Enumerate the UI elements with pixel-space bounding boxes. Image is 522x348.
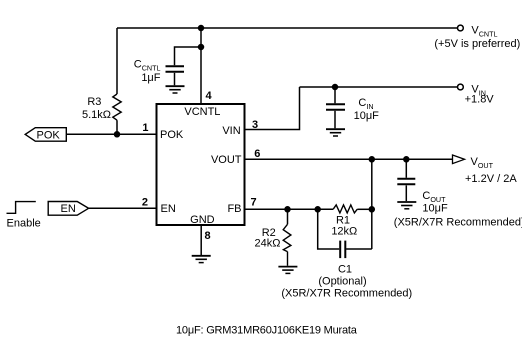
wire VOUT rail pin6 (245, 158, 453, 160)
svg-text:POK: POK (160, 129, 184, 141)
ground CIN (326, 129, 345, 136)
capacitor C1 in loop (318, 209, 340, 249)
wire VOUT to FB vertical (371, 159, 373, 249)
svg-text:5.1kΩ: 5.1kΩ (82, 109, 111, 121)
svg-text:R3: R3 (87, 96, 101, 108)
svg-text:1: 1 (142, 122, 148, 134)
node POK junction (115, 132, 120, 137)
terminal VCNTL (458, 25, 464, 31)
node CIN junction (333, 85, 338, 90)
node R1 right junction (369, 207, 374, 212)
svg-text:10μF: 10μF (354, 110, 380, 122)
svg-text:Enable: Enable (7, 217, 41, 229)
wire FB line pin7 (245, 208, 334, 210)
wire R3 top branch (116, 28, 118, 94)
wire R1 right lead (357, 208, 372, 210)
svg-text:(X5R/X7R Recommended): (X5R/X7R Recommended) (394, 217, 522, 229)
svg-text:EN: EN (61, 203, 76, 215)
svg-text:7: 7 (251, 197, 257, 209)
ground CCNTL (166, 86, 185, 93)
wire R3 bottom (116, 120, 118, 134)
wire top VCNTL rail (117, 27, 457, 29)
node C1 loop left junction (315, 207, 320, 212)
node FB divider tap on VOUT rail (369, 157, 374, 162)
svg-text:(+5V is preferred): (+5V is preferred) (434, 38, 520, 50)
svg-text:8: 8 (205, 230, 211, 242)
terminal VIN (458, 84, 464, 90)
wire VIN rail (300, 86, 458, 88)
connector POK flag (25, 128, 66, 142)
terminal VOUT arrow (453, 155, 465, 164)
svg-text:24kΩ: 24kΩ (255, 237, 281, 249)
svg-text:VOUT: VOUT (211, 154, 242, 166)
capacitor CIN (334, 87, 336, 103)
svg-text:VCNTL: VCNTL (184, 106, 220, 118)
svg-text:2: 2 (142, 196, 148, 208)
connector EN flag (48, 202, 88, 216)
node COUT junction (404, 157, 409, 162)
svg-text:10μF: GRM31MR60J106KE19 Murata: 10μF: GRM31MR60J106KE19 Murata (176, 325, 358, 337)
resistor R2 (287, 209, 289, 224)
node R2 junction (285, 207, 290, 212)
wire pin4 vertical (200, 28, 202, 104)
resistor R1 (333, 205, 357, 213)
svg-text:+1.2V / 2A: +1.2V / 2A (465, 173, 517, 185)
svg-text:+1.8V: +1.8V (465, 94, 495, 106)
svg-text:VIN: VIN (222, 125, 240, 137)
wire CCNTL to ground (174, 73, 176, 86)
ground COUT (397, 202, 416, 209)
svg-text:EN: EN (161, 203, 176, 215)
svg-text:C1: C1 (338, 263, 352, 275)
svg-text:12kΩ: 12kΩ (331, 225, 357, 237)
node CCNTL branch junction (199, 45, 204, 50)
wire pin3 VIN jog (245, 87, 300, 130)
svg-text:POK: POK (37, 129, 61, 141)
svg-text:3: 3 (252, 119, 258, 131)
svg-text:1μF: 1μF (141, 72, 160, 84)
svg-text:6: 6 (254, 148, 260, 160)
svg-text:(X5R/X7R Recommended): (X5R/X7R Recommended) (281, 288, 412, 300)
wire CCNTL branch (175, 47, 202, 65)
wire POK line (66, 133, 156, 135)
ground pin8 (192, 256, 211, 263)
capacitor COUT (405, 159, 407, 178)
wire EN line pin2 (89, 207, 157, 209)
ground R2 (278, 267, 297, 274)
resistor R3 (113, 94, 121, 120)
node VCNTL rail junction (199, 26, 204, 31)
capacitor CCNTL (166, 66, 185, 72)
svg-text:10μF: 10μF (422, 202, 448, 214)
wire pin8 GND (200, 225, 202, 255)
svg-text:FB: FB (227, 203, 241, 215)
svg-text:(Optional): (Optional) (318, 276, 366, 288)
svg-text:GND: GND (190, 214, 215, 226)
svg-text:4: 4 (206, 90, 213, 102)
IC U1 TPS7A8101 box (157, 104, 245, 225)
enable step waveform symbol (7, 202, 36, 214)
